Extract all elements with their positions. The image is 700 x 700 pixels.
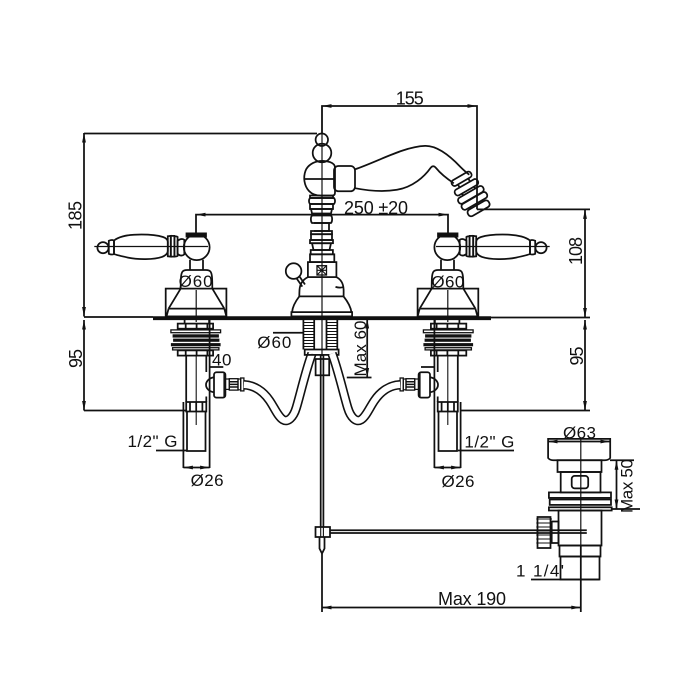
svg-text:1/2" G: 1/2" G — [128, 432, 178, 451]
svg-text:Max 60: Max 60 — [351, 321, 370, 377]
svg-text:108: 108 — [566, 237, 586, 265]
svg-text:Ø26: Ø26 — [191, 471, 224, 490]
svg-text:Ø60: Ø60 — [431, 273, 464, 292]
svg-text:Max 50: Max 50 — [618, 459, 637, 513]
svg-text:1/2" G: 1/2" G — [464, 433, 514, 452]
svg-text:250 ±20: 250 ±20 — [344, 198, 408, 218]
svg-text:95: 95 — [567, 347, 587, 366]
svg-text:40: 40 — [212, 351, 232, 370]
svg-text:95: 95 — [66, 349, 86, 368]
svg-text:155: 155 — [396, 88, 424, 108]
svg-text:1 1/4': 1 1/4' — [516, 562, 564, 581]
svg-text:Ø60: Ø60 — [257, 333, 291, 352]
svg-text:Ø60: Ø60 — [179, 272, 213, 291]
svg-text:Max 190: Max 190 — [438, 589, 506, 609]
svg-text:185: 185 — [66, 201, 86, 230]
svg-text:Ø63: Ø63 — [563, 424, 596, 443]
svg-text:Ø26: Ø26 — [442, 472, 475, 491]
